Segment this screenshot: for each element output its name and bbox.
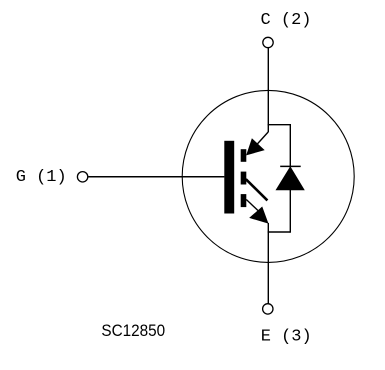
IGBT gate bar — [224, 141, 234, 214]
IGBT channel dash bottom — [241, 194, 247, 207]
terminal C pin circle — [263, 37, 273, 47]
wire collector arrow shaft — [256, 132, 269, 146]
svg-text:E (3): E (3) — [261, 328, 312, 347]
wire gate horizontal — [88, 176, 224, 178]
wire emitter to diode branch — [268, 231, 291, 233]
terminal G pin circle — [77, 172, 87, 182]
wire emitter arrow shaft — [246, 200, 259, 212]
IGBT channel dash top — [241, 149, 247, 162]
IGBT emitter arrowhead — [250, 207, 268, 223]
IGBT collector arrowhead — [247, 139, 264, 155]
terminal E pin circle — [263, 304, 273, 314]
svg-text:G (1): G (1) — [16, 168, 67, 187]
wire collector vertical — [267, 48, 269, 132]
IGBT channel dash middle — [241, 172, 247, 185]
wire emitter vertical — [267, 223, 269, 304]
svg-text:SC12850: SC12850 — [101, 321, 165, 340]
svg-text:C (2): C (2) — [261, 11, 312, 30]
wire diode vertical — [289, 124, 291, 233]
IGBT body diagonal — [246, 179, 268, 200]
wire collector to diode branch — [268, 124, 291, 126]
diode D1 cathode bar — [280, 165, 301, 167]
diode D1 triangle — [276, 167, 304, 190]
device envelope circle — [182, 90, 354, 262]
